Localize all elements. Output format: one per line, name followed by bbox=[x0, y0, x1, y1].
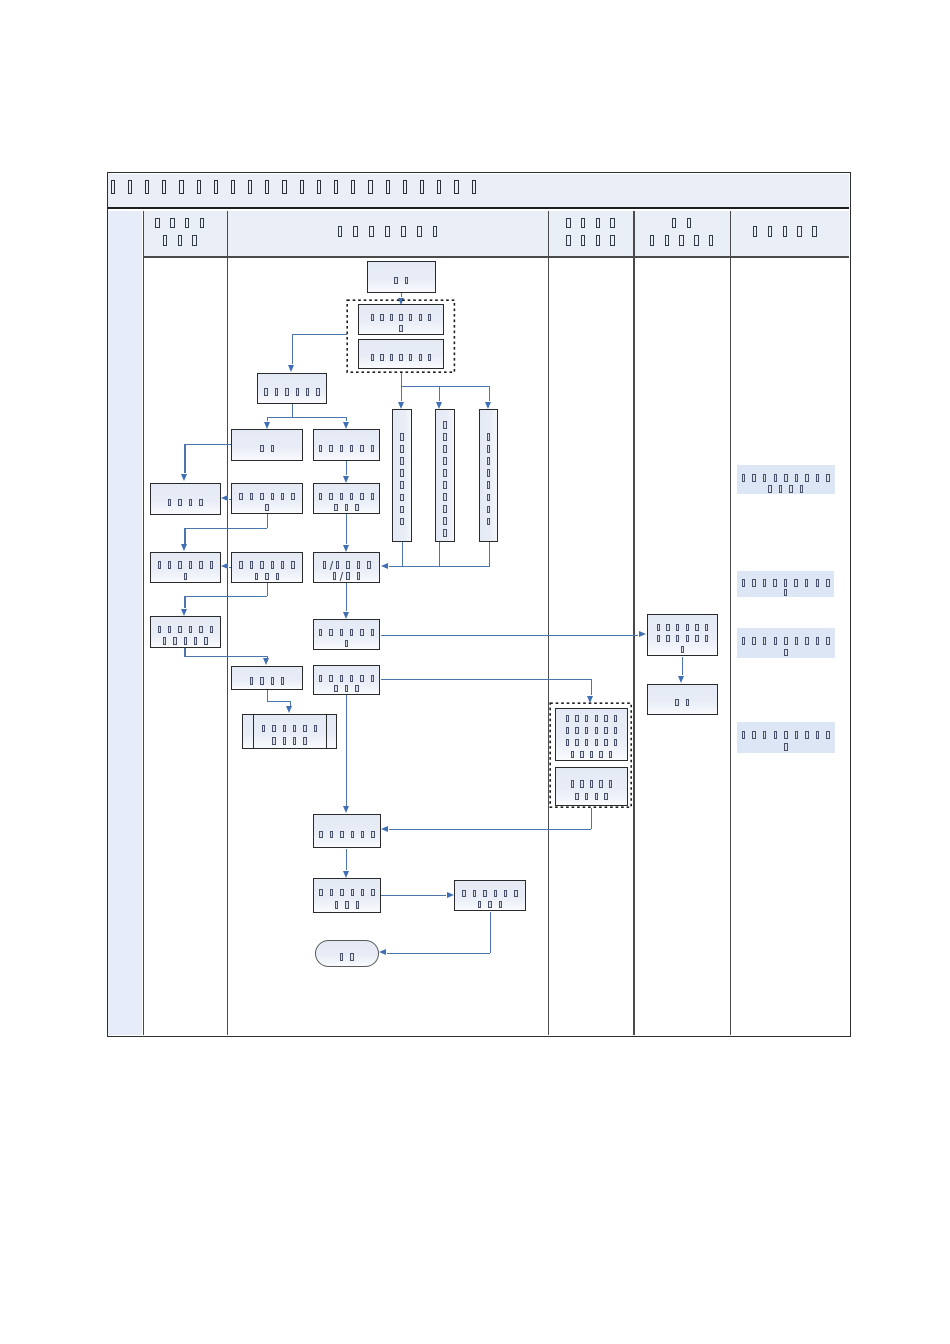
wire issue box -> lane5 receive box bbox=[381, 635, 639, 636]
lane divider x=548.0 bbox=[548, 211, 549, 1035]
node start bbox=[367, 261, 436, 293]
wire distribute box -> long down to use box bbox=[346, 695, 347, 806]
node end terminator bbox=[315, 940, 380, 968]
wire box -> approve box (x=346) bbox=[346, 514, 347, 544]
wire start->dashed group bbox=[401, 292, 402, 297]
wire record box -> end terminator bbox=[490, 912, 491, 953]
note lane6 block4 bbox=[737, 722, 835, 753]
node record box bbox=[454, 880, 526, 912]
wire approve -> issue box bbox=[346, 583, 347, 612]
node lane5 receive bbox=[647, 614, 719, 656]
wire elbow lane3 box -> lane2 box2 bbox=[267, 514, 268, 528]
wire elbow lane2 box3 -> small box bbox=[184, 648, 185, 656]
node lane2 box2 bbox=[150, 552, 221, 584]
wire dashed group -> review box (left branch) bbox=[292, 334, 348, 335]
wire dashed group bottom -> three tall boxes bbox=[401, 372, 402, 401]
node draft doc2 (in dashed group) bbox=[358, 339, 444, 370]
wire tall boxes -> approve box collector bbox=[402, 542, 403, 566]
title bar bbox=[108, 174, 850, 209]
node modify1 bbox=[231, 483, 303, 514]
note lane6 block3 bbox=[737, 628, 835, 659]
lane divider x=142.5 bbox=[143, 211, 144, 1035]
node small 4-tofu bbox=[231, 666, 303, 690]
dashed group: file drafting (top) bbox=[346, 299, 456, 374]
narrow left column fill bbox=[108, 211, 143, 1035]
node modify2 bbox=[313, 483, 381, 514]
dashed group: lane4 receive/learn bbox=[549, 702, 633, 809]
node issue bbox=[313, 619, 381, 650]
node lane3 box2 bbox=[231, 552, 303, 584]
table outer frame bbox=[107, 172, 851, 1037]
lane6 header bbox=[730, 222, 840, 242]
node lane5 archive bbox=[647, 684, 719, 715]
header bottom line bbox=[143, 256, 850, 257]
wire review box -> split to two boxes bbox=[292, 404, 293, 418]
node change box bbox=[313, 878, 381, 913]
lane divider x=633.4 bbox=[633, 211, 634, 1035]
node tall box 3 bbox=[479, 409, 498, 542]
wire small box -> double-frame box bbox=[267, 690, 268, 701]
wire left elbow into lane2 box1 bbox=[184, 444, 231, 445]
lane divider x=729.8 bbox=[730, 211, 731, 1035]
wire lane4 dashed group -> use box bbox=[591, 808, 592, 829]
note lane6 block1 bbox=[737, 465, 835, 494]
node sign/approve bbox=[313, 552, 381, 583]
wire arrow into lane2 box2 right edge bbox=[229, 567, 232, 568]
node countersign bbox=[313, 429, 381, 461]
node use box bbox=[313, 814, 381, 849]
wire box -> box (x=346 col) bbox=[346, 461, 347, 475]
lane2 header bbox=[137, 209, 222, 255]
node lane4 receive/learn bbox=[555, 708, 628, 762]
wire distribute box -> lane4 dashed group bbox=[381, 679, 592, 680]
lane divider x=227.0 bbox=[227, 211, 228, 1035]
lane4 header bbox=[548, 209, 633, 255]
wire use box -> change box bbox=[346, 849, 347, 871]
header row background bbox=[143, 211, 850, 257]
node distribute bbox=[313, 665, 381, 695]
node lane2 box1 bbox=[150, 483, 221, 515]
wire elbow lane3 box2 -> lane2 box3 bbox=[267, 583, 268, 596]
node meeting bbox=[231, 429, 303, 461]
wire arrow into lane2 box1 right edge bbox=[229, 499, 232, 500]
node lane2 box3 bbox=[150, 616, 221, 648]
node tall box 2 bbox=[435, 409, 455, 542]
node draft doc (in dashed group) bbox=[358, 304, 444, 335]
note lane6 block2 bbox=[737, 571, 834, 597]
lane5 header bbox=[633, 209, 729, 255]
node tall box 1 bbox=[392, 409, 412, 542]
lane3 header bbox=[227, 222, 548, 242]
node lane4 carry out bbox=[555, 767, 628, 806]
wire lane5 receive -> archive bbox=[682, 657, 683, 676]
wire change box -> record box bbox=[381, 895, 446, 896]
node review bbox=[257, 373, 328, 404]
node register bbox=[242, 714, 337, 750]
